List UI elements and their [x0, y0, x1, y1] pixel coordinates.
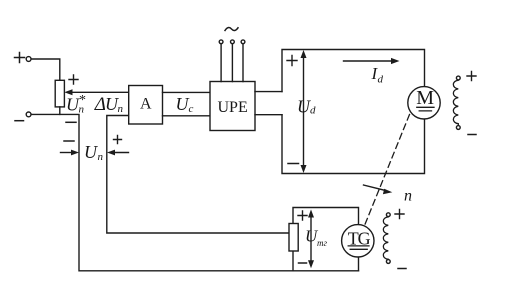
wire lower terminal to outer feedback line, down and along bottom [31, 114, 358, 270]
potentiometer wiper arrow [64, 89, 128, 95]
svg-text:M: M [416, 87, 434, 109]
plus label at wiper [69, 75, 78, 84]
Ud double arrow [301, 50, 307, 173]
Un right arrow [107, 150, 129, 156]
motor field winding top circle [456, 76, 460, 80]
three-phase supply circles [219, 40, 245, 44]
svg-text:UPE: UPE [218, 99, 248, 116]
svg-text:U: U [297, 97, 311, 117]
label Id [371, 64, 384, 86]
plus label in tacho rect [298, 211, 307, 220]
label Uc [176, 94, 194, 115]
label Ud [297, 97, 316, 117]
motor field winding coil [453, 80, 458, 125]
svg-text:n: n [118, 103, 124, 115]
plus label motor field [467, 72, 476, 81]
Utg double arrow [308, 210, 314, 269]
amplifier block A [129, 86, 163, 125]
svg-text:TG: TG [348, 229, 371, 249]
tachogenerator TG circle [342, 225, 374, 257]
TG field winding top circle [386, 213, 390, 217]
svg-text:n: n [79, 104, 85, 116]
svg-text:d: d [310, 105, 316, 117]
tacho potentiometer resistor [289, 224, 298, 252]
terminal plus sign [15, 53, 25, 63]
plus label TG field [395, 210, 404, 219]
wires UPE to DC link rectangle [255, 92, 282, 115]
svg-text:n: n [98, 151, 104, 163]
tilde AC symbol [225, 28, 238, 31]
input terminal circle top [26, 57, 31, 62]
label Utg [305, 227, 327, 249]
svg-text:U: U [176, 94, 190, 114]
dashed shaft line motor to tacho [364, 115, 409, 226]
minus sign at lower terminal [15, 120, 24, 122]
label U*n [66, 93, 86, 116]
potentiometer RP (reference) [55, 80, 64, 107]
minus label in DC link [288, 163, 299, 165]
svg-text:тг: тг [317, 238, 327, 248]
TG field winding bottom circle [386, 260, 390, 264]
DC link rectangle (armature circuit) [282, 50, 425, 174]
minus label motor field [468, 134, 476, 136]
minus label TG field [398, 268, 406, 270]
inner feedback wire: from A input down to tacho potentiometer tap [107, 116, 289, 234]
three-phase supply lines [221, 44, 243, 82]
polarity dash upper minus [66, 121, 76, 123]
motor field winding bottom circle [456, 126, 460, 130]
label Un [84, 142, 104, 163]
converter block UPE [210, 82, 255, 131]
plus label in DC link [287, 56, 297, 66]
potentiometer bottom lead [59, 107, 61, 115]
motor M underline marks [417, 107, 434, 111]
input terminal circle bottom [26, 112, 31, 117]
svg-text:n: n [404, 188, 412, 205]
label delta Un [94, 94, 124, 115]
TG field winding coil [383, 217, 388, 259]
plus label right of Un [114, 136, 122, 144]
wire from + terminal to potentiometer top [31, 59, 60, 80]
minus label in tacho rect [299, 262, 307, 264]
TG underline marks [348, 246, 369, 249]
svg-text:c: c [189, 103, 194, 115]
tacho feedback rectangle [293, 208, 359, 271]
svg-text:d: d [378, 74, 384, 86]
speed n arrow crossing shaft [364, 185, 393, 194]
svg-text:A: A [140, 96, 152, 113]
motor M circle [408, 87, 440, 119]
Un left arrow [61, 150, 80, 156]
svg-text:U: U [84, 142, 98, 162]
wires A to UPE (two rails) [163, 92, 211, 115]
Id arrow [344, 58, 400, 64]
polarity dash lower minus [64, 140, 74, 142]
